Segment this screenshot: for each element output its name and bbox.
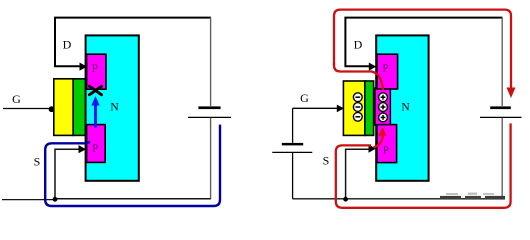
- red channel hook arrow: [374, 135, 383, 148]
- N substrate region: [86, 35, 139, 180]
- svg-text:P: P: [383, 145, 389, 157]
- P region lower right: [377, 125, 397, 163]
- electron circles in gate metal: [353, 93, 362, 121]
- red arrowhead into battery: [507, 88, 516, 99]
- node drain contact right: [369, 63, 376, 71]
- wire red loop top (drain highlight): [334, 10, 511, 89]
- battery B2 negative plate: [490, 106, 511, 109]
- wire drain loop right (D box): [345, 18, 502, 67]
- node gate contact: [49, 106, 55, 112]
- node source contact right: [369, 145, 377, 153]
- P region upper right: [377, 54, 398, 89]
- wire source stub lead: [2, 199, 55, 201]
- battery BG positive plate: [272, 151, 312, 153]
- gate oxide (green): [73, 79, 85, 136]
- wire source box edge: [346, 149, 370, 199]
- node bottom junction: [343, 197, 348, 202]
- svg-text:G: G: [300, 91, 309, 105]
- wire gate battery bottom: [292, 153, 294, 199]
- node gate contact right: [337, 105, 344, 113]
- wire red loop bottom (source highlight): [336, 123, 511, 207]
- svg-text:G: G: [12, 92, 21, 106]
- wire gate lead: [3, 108, 49, 110]
- wire battery drop right bottom: [501, 118, 503, 199]
- wire red into upper P: [334, 63, 383, 90]
- wire bottom bus: [293, 198, 505, 200]
- battery BG negative plate: [282, 143, 303, 146]
- P region lower (source): [87, 125, 106, 163]
- node source contact: [79, 145, 87, 153]
- svg-text:D: D: [354, 38, 363, 52]
- svg-text:P: P: [92, 143, 98, 155]
- svg-text:P: P: [92, 63, 98, 75]
- hole circles in induced channel: [379, 93, 388, 122]
- gate metal right (yellow): [343, 81, 364, 135]
- battery B1 positive plate: [188, 116, 231, 118]
- svg-text:S: S: [323, 154, 330, 168]
- P region upper (drain): [87, 54, 106, 89]
- wire source loop left (S box): [55, 149, 211, 199]
- gate metal (yellow): [54, 79, 73, 136]
- watermark smudges: [440, 193, 505, 199]
- N substrate region right: [376, 35, 428, 180]
- blue arrow (blocked current): [94, 105, 97, 128]
- wire gate lead right: [293, 107, 338, 109]
- svg-text:P: P: [383, 63, 389, 75]
- induced P channel strip: [375, 88, 390, 125]
- wire battery drop right top: [501, 18, 503, 106]
- wire battery drop left bottom: [210, 118, 212, 199]
- svg-text:S: S: [34, 155, 41, 169]
- wire source highlight (navy loop): [45, 125, 220, 206]
- svg-text:N: N: [110, 102, 119, 114]
- svg-text:D: D: [63, 38, 72, 52]
- wire drain loop left (D box): [55, 18, 211, 67]
- wire gate battery top: [292, 108, 294, 143]
- svg-text:N: N: [401, 102, 410, 114]
- battery B2 positive plate: [480, 116, 522, 118]
- node source junction: [53, 197, 58, 202]
- wire battery drop left top: [210, 18, 212, 106]
- node drain contact: [80, 63, 88, 71]
- gate oxide right (green): [365, 81, 374, 135]
- battery B1 negative plate: [198, 106, 220, 109]
- blocked channel X mark: [89, 86, 101, 95]
